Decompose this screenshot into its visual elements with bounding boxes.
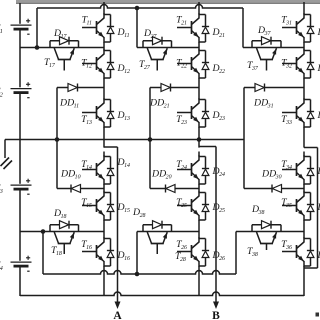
transistor T28 [147,232,151,244]
svg-text:D22: D22 [212,63,226,75]
wire: T38 row drop [235,232,237,275]
svg-text:D38: D38 [251,204,265,216]
diode D25 [199,192,206,194]
wire: leg2 bottom [198,266,200,296]
transistor T21 [198,13,200,18]
transistor T32 [303,49,305,54]
diode D13 [104,99,111,101]
svg-text:T18: T18 [51,245,62,257]
wire: DD21 row [150,87,199,89]
svg-text:T15: T15 [81,197,92,209]
wire: leg2 seg1-2 [198,42,200,51]
wire: leg1 seg4-5 [103,184,105,193]
svg-text:D11: D11 [117,27,130,39]
svg-text:T26: T26 [176,239,187,251]
wire: leg1 seg5-6 [103,220,105,239]
diode D28 [142,225,144,232]
node: tap junction [35,45,40,50]
svg-text:DD11: DD11 [59,98,79,110]
label C (cropped) [316,313,320,317]
svg-text:T12: T12 [81,58,92,70]
wire: leg3 seg5-6 [303,220,305,239]
svg-text:T32: T32 [281,58,292,70]
svg-text:D37: D37 [257,25,272,37]
diode D37 [251,41,253,48]
wire: leg1 seg3-mid [103,127,105,148]
svg-text:D21: D21 [212,27,226,39]
diode D18 [49,225,51,232]
wire: T18 row drop [42,232,44,275]
svg-text:T33: T33 [281,114,292,126]
wire: leg1 seg mid-4 [103,152,105,157]
diode D12 [104,50,111,52]
capacitor C4 [19,261,21,267]
transistor T36 [303,237,305,242]
diode D32 [304,50,311,52]
transistor T25 [198,191,200,196]
svg-text:T22: T22 [176,58,187,70]
cropped source symbol [1,158,10,167]
svg-text:C1: C1 [0,23,3,35]
diode D31 [304,14,311,16]
svg-text:T34: T34 [281,159,292,171]
wire: DD20 row [150,188,199,190]
svg-text:T38: T38 [247,246,258,258]
wire: leg2 seg mid-4 [198,152,200,157]
capacitor C1 [19,24,21,30]
wire: leg1 seg2-3 [103,78,105,100]
wire: leg1 clamp vertical [56,88,58,189]
transistor T17 [54,48,58,60]
diode D23 [199,99,206,101]
svg-text:D15: D15 [117,202,131,214]
wire: leg3 seg3-mid [303,127,305,148]
diode D17 [49,41,51,48]
wire: leg3 top [303,2,305,15]
wire: leg3 clamp vertical [243,88,245,189]
wire: phase B jog [199,146,216,148]
wire: bus drop to T17 row [36,8,38,48]
svg-text:T23: T23 [176,114,187,126]
svg-text:D33: D33 [317,110,320,122]
svg-text:T36: T36 [281,239,292,251]
transistor T35 [303,191,305,196]
transistor T34 [303,155,305,160]
transistor T15 [103,191,105,196]
wire: DD10 row [57,188,104,190]
transistor T12 [103,49,105,54]
svg-text:T25: T25 [176,197,187,209]
svg-text:T14: T14 [81,159,92,171]
transistor T33 [303,98,305,103]
transistor T23 [198,98,200,103]
wire: leg2 seg4-5 [198,184,200,193]
wire: T37 row [243,47,304,49]
svg-text:D23: D23 [212,110,226,122]
svg-text:D18: D18 [53,208,67,220]
wire: leg2 seg5-6 [198,220,200,239]
diode D36 [304,238,311,240]
diode D16 [104,238,111,240]
svg-text:DD21: DD21 [149,98,170,110]
diode D38 [251,225,253,232]
node: bus junction to T28 drop [135,272,140,277]
node: tap junction lower [41,229,46,234]
diode DD21 [170,84,172,92]
wire: bottom DC rail [20,292,304,296]
svg-text:C3: C3 [0,183,3,195]
diode DD20 [165,185,167,193]
wire: leg3 bottom [303,266,305,296]
wire: top clamp bus [37,5,243,8]
node: leg1 clamp to neutral [55,137,60,142]
transistor T31 [303,13,305,18]
transistor T11 [103,13,105,18]
svg-text:D17: D17 [53,28,68,40]
diode D11 [104,14,111,16]
svg-text:D12: D12 [117,63,131,75]
svg-text:D31: D31 [317,27,320,39]
svg-text:D28: D28 [132,207,146,219]
wire: leg3 seg1-2 [303,42,305,51]
wire: phase A jog [104,146,118,148]
transistor T16 [103,237,105,242]
capacitor C3 [19,184,21,190]
svg-text:D25: D25 [212,202,226,214]
svg-text:T21: T21 [176,15,187,27]
transistor T24 [198,155,200,160]
diode D35 [304,192,311,194]
transistor T37 [257,48,261,60]
svg-text:T16: T16 [81,239,92,251]
wire: neutral bus [5,139,244,141]
svg-text:DD20: DD20 [151,169,172,181]
wire: lower clamp bus [43,271,236,274]
svg-text:D27: D27 [143,28,158,40]
svg-text:D13: D13 [117,110,131,122]
transistor T26 [198,237,200,242]
transistor T13 [103,98,105,103]
transistor T38 [257,232,261,244]
wire: leg3 seg4-5 [303,184,305,193]
svg-text:B: B [212,310,220,320]
wire: leg3 seg2-3 [303,78,305,100]
svg-text:DD10: DD10 [60,169,81,181]
svg-text:T28: T28 [175,251,186,263]
wire: leg3 seg mid-4 [303,152,305,157]
wire: leg2 seg3-mid [198,127,200,148]
svg-text:T17: T17 [44,57,56,69]
wire: leg1 top [103,2,105,15]
svg-text:T37: T37 [247,60,259,72]
diode D24 [199,156,206,158]
diode D22 [199,50,206,52]
svg-text:D24: D24 [212,166,226,178]
diode D15 [104,192,111,194]
svg-text:D32: D32 [317,63,320,75]
wire: T38 row [236,231,304,233]
diode DD31 [264,84,266,92]
wire: DD30 row [244,188,304,190]
transistor T22 [198,49,200,54]
neutral stub to cropped source [4,140,6,159]
wire: C3C4 tap to leg1 (T18 row) [20,231,104,233]
node: leg2 clamp to neutral [148,137,153,142]
diode DD10 [70,185,72,193]
wire: T28 row [137,231,199,233]
wire: leg2 top [198,2,200,15]
wire: leg2 seg2-3 [198,78,200,100]
phase A arrowhead [115,302,121,310]
transistor T27 [147,48,151,60]
capacitor C2 [19,87,21,93]
svg-text:D26: D26 [212,250,226,262]
wire: DD11 row [57,87,104,89]
wire: T27 row [137,47,199,49]
diode D34 [304,156,311,158]
transistor T14 [103,155,105,160]
svg-text:C2: C2 [0,87,3,99]
svg-text:DD30: DD30 [261,169,282,181]
phase B arrowhead [213,302,219,310]
wire: DD31 row [244,87,304,89]
wire: bus drop to T37 row [242,8,244,48]
diode DD11 [77,84,79,92]
diode D27 [142,41,144,48]
svg-text:A: A [113,310,122,320]
wire: phase C jog [304,147,318,149]
wire: T28 row drop [136,232,138,275]
wire: bus drop to T27 row [136,8,138,48]
transistor T18 [54,232,58,244]
svg-text:D14: D14 [117,157,131,169]
svg-text:T27: T27 [139,59,151,71]
wire: leg2 clamp vertical [149,88,151,189]
wire: C1C2 tap to leg1 (T17 row) [20,47,104,49]
diode D14 [104,156,111,158]
wire: leg1 bottom [103,266,105,296]
DC-link rail [19,3,21,296]
diode D26 [199,238,206,240]
diode DD30 [271,185,273,193]
svg-text:T31: T31 [281,15,292,27]
svg-text:T13: T13 [81,114,92,126]
top DC bar (cropped rail) [16,0,320,3]
svg-text:T35: T35 [281,197,292,209]
svg-text:D16: D16 [117,250,131,262]
node: leg2 neutral junction [197,137,202,142]
wire: leg1 seg1-2 [103,42,105,51]
svg-text:C4: C4 [0,260,3,272]
svg-text:DD31: DD31 [253,98,274,110]
svg-text:T24: T24 [176,159,187,171]
svg-text:T11: T11 [82,15,92,27]
node: bus junction to T27 [135,6,140,11]
diode D33 [304,99,311,101]
diode D21 [199,14,206,16]
